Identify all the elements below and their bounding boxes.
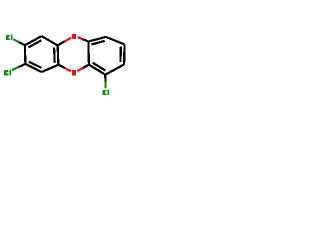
bond O2-C9b (bottom oxygen to right ring) (77, 65, 89, 71)
bond C6-Cl (upper-left chlorine) (13, 39, 25, 45)
bond C4-C3 (ring A bottom-right edge) (42, 65, 59, 72)
bond C8=C7 double (ring B right edge) (121, 44, 125, 64)
bond C6a-Cl (bottom-right chlorine) (104, 75, 106, 89)
bond C9-C8 (ring B top-right edge) (106, 37, 125, 45)
bond C1-C2 (ring A top-right edge) (42, 36, 58, 45)
bond O1-C9a (top oxygen to right ring) (78, 37, 89, 41)
atom Cl (bottom-right chlorine label) (103, 89, 109, 95)
bond C6-C5 (ring A left edge) (24, 45, 27, 64)
atom O2 (bottom oxygen label) (72, 70, 76, 75)
bond C2-O1 (to top oxygen) (58, 38, 72, 46)
bond C9a=C9 double (ring B top-left edge) (88, 37, 106, 45)
atom Cl (lower-left chlorine label) (4, 70, 11, 76)
bond C2=C3 double (ring A / central shared edge) (54, 45, 58, 64)
bond C9a-C9b (ring B / central shared edge) (87, 42, 90, 65)
bond C5=C4 double (ring A bottom-left edge) (25, 62, 41, 72)
bond C5-Cl (lower-left chlorine) (12, 64, 26, 70)
bond C6a=C9b double (ring B bottom-left edge) (89, 63, 106, 75)
atom Cl (upper-left chlorine label) (6, 34, 12, 40)
bond C1=C6 double (ring A top-left edge) (25, 36, 42, 47)
chemical structure: trichlorodibenzo-p-dioxin skeletal formula (0, 0, 130, 130)
bond C3-O2 (to bottom oxygen) (58, 65, 71, 72)
atom O1 (top oxygen label) (72, 34, 76, 39)
bond C7-C6a (ring B bottom-right edge) (105, 64, 124, 74)
